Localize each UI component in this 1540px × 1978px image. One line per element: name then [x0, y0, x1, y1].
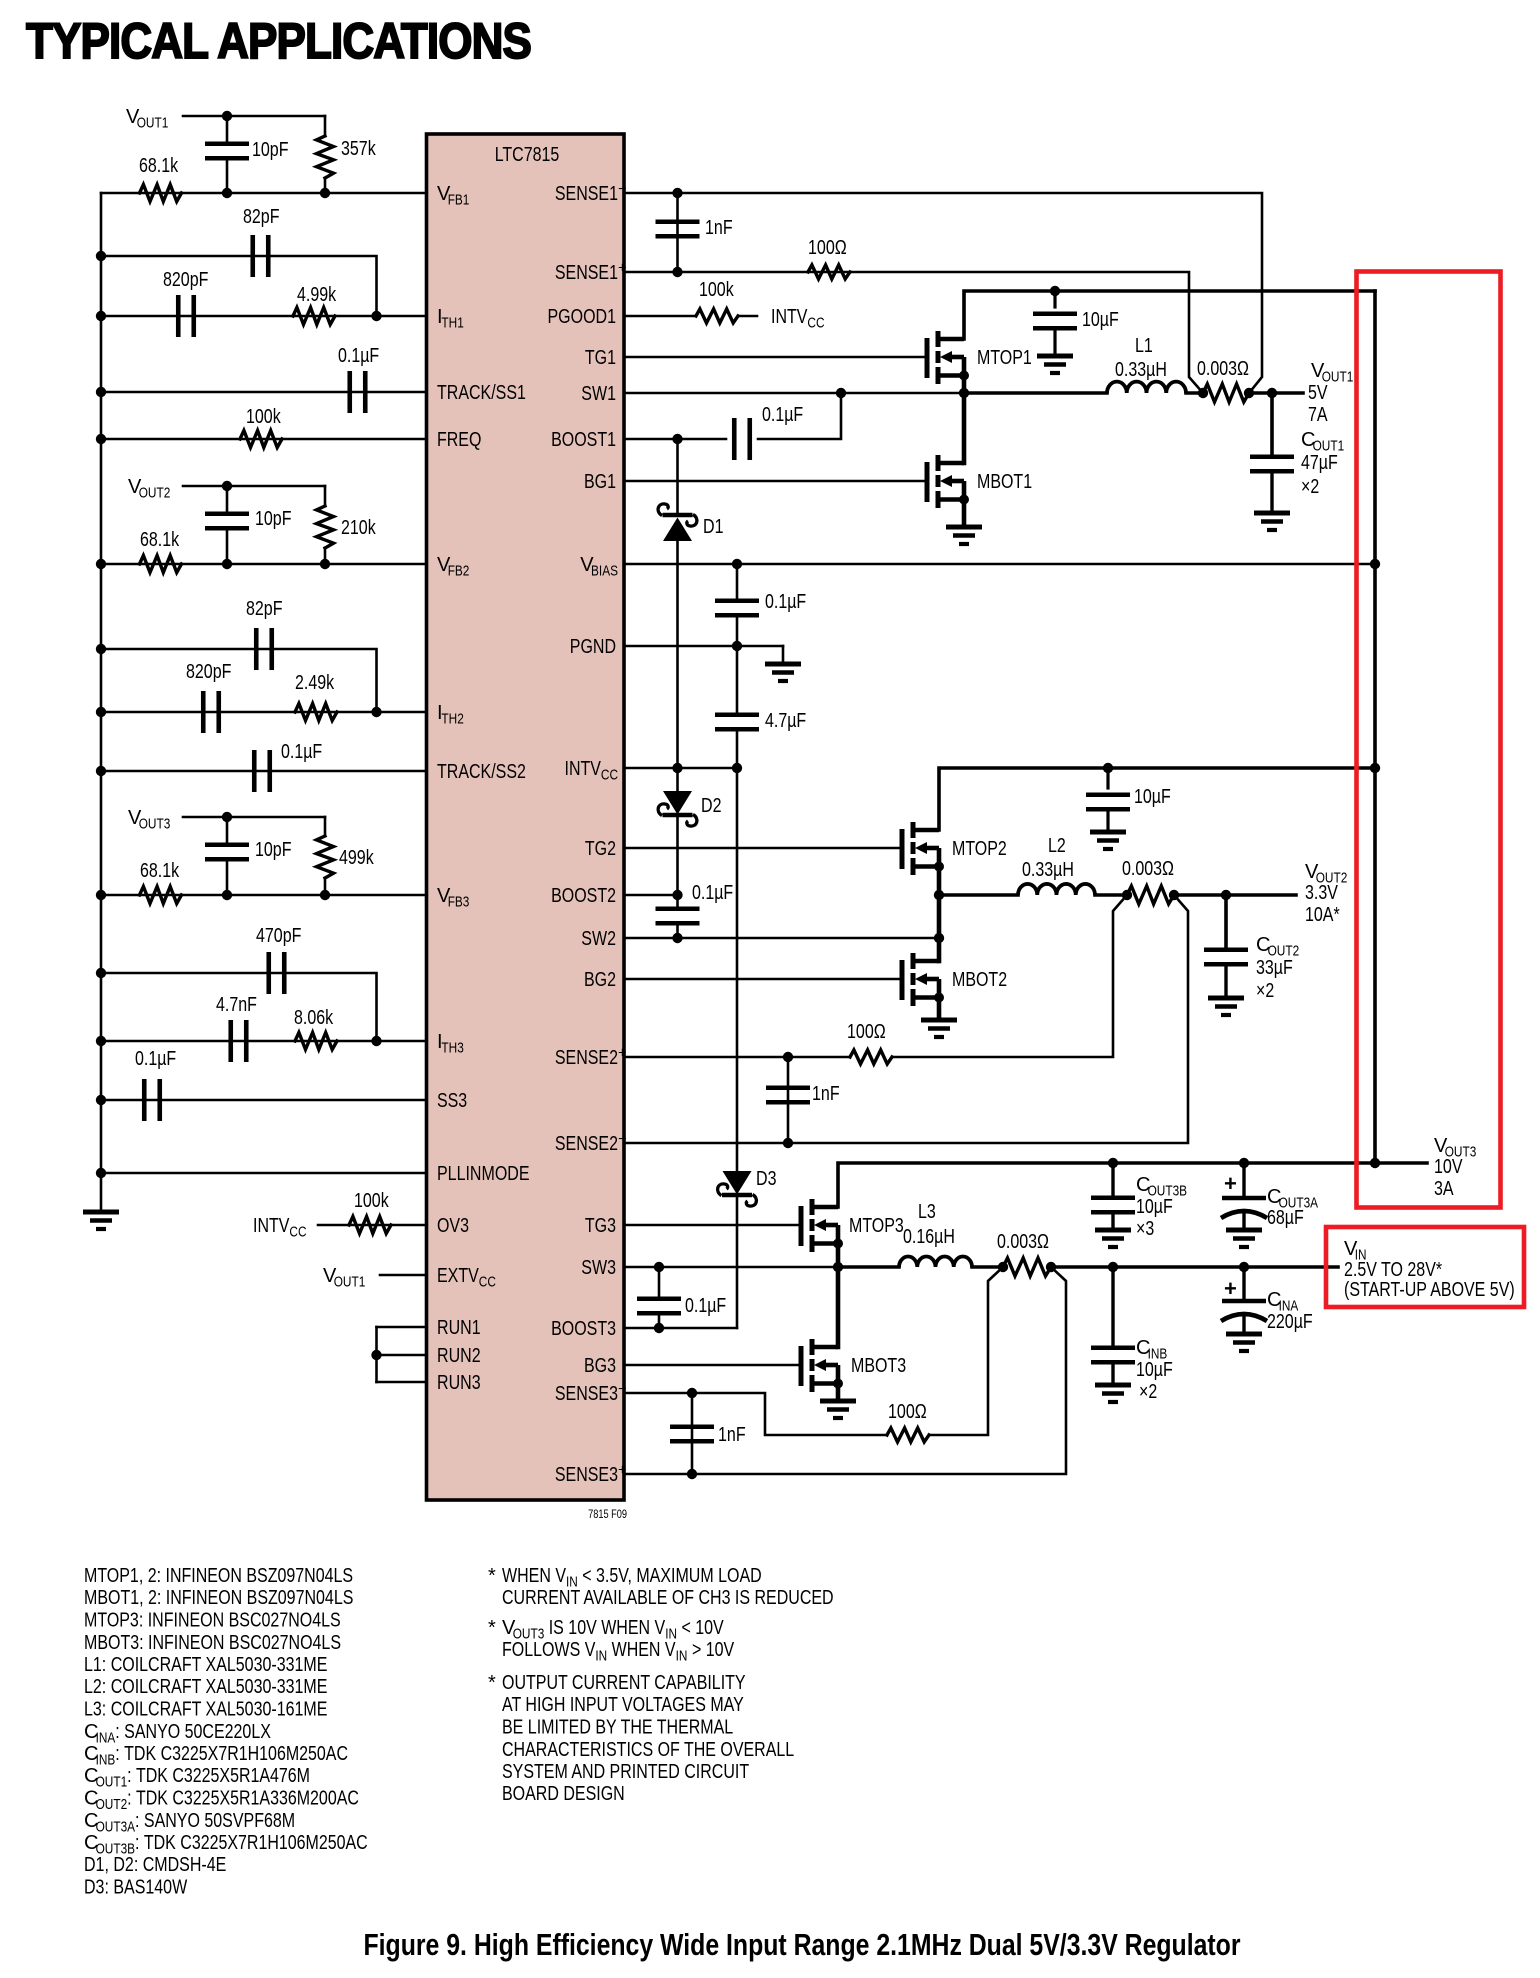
resistor 100k OV3	[349, 1217, 391, 1234]
svg-text:2.49k: 2.49k	[295, 672, 335, 694]
svg-text:820pF: 820pF	[163, 269, 208, 291]
svg-text:MBOT1: MBOT1	[977, 471, 1032, 493]
capacitor 4.7uF INTVCC	[736, 646, 739, 715]
svg-text:TG1: TG1	[585, 347, 616, 369]
svg-text:*: *	[488, 1565, 496, 1587]
svg-text:: TDK C3225X5R1A336M200AC: : TDK C3225X5R1A336M200AC	[127, 1788, 359, 1810]
svg-text:: TDK C3225X7R1H106M250AC: : TDK C3225X7R1H106M250AC	[115, 1743, 348, 1765]
capacitor 1nF ch3	[691, 1393, 694, 1474]
svg-text:Figure 9. High Efficiency Wide: Figure 9. High Efficiency Wide Input Ran…	[364, 1927, 1241, 1962]
wire FREQ row	[101, 438, 427, 441]
svg-text:L3: L3	[918, 1201, 936, 1223]
resistor 499k ch3	[324, 817, 327, 836]
wire VOUT2 output	[1174, 893, 1296, 897]
svg-text:1nF: 1nF	[705, 217, 733, 239]
svg-text:SS3: SS3	[437, 1090, 467, 1112]
svg-text:4.99k: 4.99k	[297, 284, 337, 306]
svg-text:FB3: FB3	[448, 895, 470, 911]
svg-text:SENSE2: SENSE2	[555, 1133, 618, 1155]
svg-text:1nF: 1nF	[718, 1424, 746, 1446]
svg-text:D3: BAS140W: D3: BAS140W	[84, 1877, 187, 1899]
capacitor 820pF ch2	[201, 691, 206, 733]
svg-text:100Ω: 100Ω	[847, 1021, 886, 1043]
diode D1 schottky	[676, 439, 679, 515]
resistor 68.1k ch1	[140, 185, 182, 202]
svg-text:OUTPUT CURRENT CAPABILITY: OUTPUT CURRENT CAPABILITY	[502, 1672, 746, 1694]
wire SENSE3- net	[624, 1393, 887, 1435]
svg-text:FB2: FB2	[448, 564, 470, 580]
svg-text:×3: ×3	[1136, 1218, 1154, 1240]
svg-text:INB: INB	[96, 1753, 116, 1769]
svg-text:BOARD DESIGN: BOARD DESIGN	[502, 1783, 625, 1805]
wire ITH2 row	[101, 711, 427, 714]
svg-text:357k: 357k	[341, 138, 376, 160]
wire MBOT2 drain to SW2	[937, 938, 942, 961]
resistor 4.99k ch1	[293, 308, 335, 325]
svg-text:10pF: 10pF	[252, 139, 289, 161]
svg-text:0.33µH: 0.33µH	[1115, 359, 1167, 381]
svg-text:0.16µH: 0.16µH	[903, 1226, 955, 1248]
capacitor 0.1uF BOOST1	[732, 418, 737, 460]
svg-text:MBOT2: MBOT2	[952, 969, 1007, 991]
svg-text:L1: COILCRAFT XAL5030-331ME: L1: COILCRAFT XAL5030-331ME	[84, 1654, 327, 1676]
svg-text:BIAS: BIAS	[591, 564, 618, 580]
svg-text:3A: 3A	[1434, 1178, 1454, 1200]
svg-text:CC: CC	[289, 1225, 306, 1241]
svg-text:10A*: 10A*	[1305, 904, 1340, 926]
svg-text:OUT3A: OUT3A	[96, 1819, 136, 1835]
svg-text:BOOST2: BOOST2	[551, 885, 616, 907]
transistor MBOT1 NMOS	[925, 462, 930, 502]
svg-text:7815 F09: 7815 F09	[588, 1509, 627, 1521]
IC U1 LTC7815 body	[427, 134, 625, 1500]
transistor MBOT2 NMOS	[900, 960, 905, 1000]
capacitor COUT3B 10uF x3	[1111, 1163, 1114, 1198]
svg-text:PLLINMODE: PLLINMODE	[437, 1163, 530, 1185]
capacitor 82pF ch1	[250, 235, 255, 277]
ground MBOT3	[820, 1399, 856, 1404]
resistor 68.1k ch3	[140, 887, 182, 904]
wire SENSE3+ net	[624, 1267, 1066, 1474]
transistor MTOP1 NMOS	[925, 338, 930, 378]
wire MBOT2 source to gnd	[937, 998, 942, 1021]
svg-text:PGND: PGND	[570, 636, 616, 658]
svg-text:INTV: INTV	[253, 1215, 290, 1237]
svg-text:5V: 5V	[1308, 382, 1328, 404]
inductor L3 0.16uH	[838, 1265, 899, 1269]
ground MBOT2	[921, 1018, 957, 1023]
wire BG2 net	[624, 978, 902, 981]
svg-text:: SANYO 50CE220LX: : SANYO 50CE220LX	[115, 1721, 271, 1743]
svg-text:BG2: BG2	[584, 969, 616, 991]
capacitor 1nF ch2	[787, 1057, 790, 1143]
wire SENSE1+ net	[624, 272, 1203, 393]
svg-text:BG3: BG3	[584, 1355, 616, 1377]
svg-text:0.1µF: 0.1µF	[765, 591, 806, 613]
svg-text:SENSE2: SENSE2	[555, 1047, 618, 1069]
resistor 100k PGOOD1	[696, 309, 738, 323]
wire ITH1 row	[101, 315, 427, 318]
svg-text:MTOP3: INFINEON BSC027NO4LS: MTOP3: INFINEON BSC027NO4LS	[84, 1610, 341, 1632]
svg-text:FOLLOWS V: FOLLOWS V	[502, 1639, 596, 1661]
svg-text:220µF: 220µF	[1267, 1311, 1313, 1333]
wire VOUT1 node ch1	[183, 115, 325, 118]
svg-text:BOOST3: BOOST3	[551, 1318, 616, 1340]
svg-text:0.1µF: 0.1µF	[692, 882, 733, 904]
wire TG1 net	[624, 356, 927, 359]
svg-text:82pF: 82pF	[246, 598, 283, 620]
svg-text:CC: CC	[479, 1275, 496, 1291]
wire PGOOD1 net	[624, 315, 696, 318]
wire BOOST2 net	[624, 894, 678, 897]
svg-text:10µF: 10µF	[1082, 309, 1119, 331]
wire VFB2 row	[101, 563, 427, 566]
svg-text:2.5V TO 28V*: 2.5V TO 28V*	[1344, 1259, 1442, 1281]
wire MBOT1 drain to SW1	[962, 393, 967, 463]
wire SW2 net	[624, 937, 939, 940]
svg-text:L2: COILCRAFT XAL5030-331ME: L2: COILCRAFT XAL5030-331ME	[84, 1676, 327, 1698]
capacitor 470pF ch3	[266, 952, 271, 994]
svg-text:BG1: BG1	[584, 471, 616, 493]
wire MBOT1 source to gnd	[962, 500, 967, 528]
resistor 2.49k ch2	[295, 704, 337, 721]
wire TRACK/SS2 row	[101, 770, 427, 773]
capacitor 82pF ch2	[254, 628, 259, 670]
resistor 0.003Ohm ch2 sense	[1127, 886, 1174, 904]
transistor MTOP3 NMOS	[799, 1206, 804, 1246]
wire MTOP3 source to SW3	[836, 1244, 841, 1268]
svg-text:IS 10V WHEN V: IS 10V WHEN V	[544, 1617, 665, 1639]
wire BOOST1 net	[624, 438, 726, 441]
svg-text:TG2: TG2	[585, 838, 616, 860]
svg-text:< 10V: < 10V	[677, 1617, 724, 1639]
svg-text:0.003Ω: 0.003Ω	[1122, 858, 1174, 880]
resistor 100Ohm SENSE1+	[808, 265, 850, 279]
capacitor COUT2 33uF x2	[1224, 895, 1228, 950]
capacitor 0.1uF BOOST2	[676, 895, 679, 909]
wire BG1 net	[624, 480, 927, 483]
svg-text:+: +	[618, 261, 627, 277]
capacitor 10pF ch2	[205, 511, 249, 516]
svg-text:+: +	[618, 1046, 627, 1062]
wire L3 to sense ch3	[972, 1265, 1003, 1269]
svg-text:INA: INA	[96, 1730, 116, 1746]
svg-text:10µF: 10µF	[1136, 1359, 1173, 1381]
capacitor COUT3A 68uF electrolytic	[1242, 1163, 1245, 1198]
svg-text:EXTV: EXTV	[437, 1265, 479, 1287]
resistor 8.06k ch3	[295, 1033, 337, 1050]
svg-text:SYSTEM AND PRINTED CIRCUIT: SYSTEM AND PRINTED CIRCUIT	[502, 1761, 749, 1783]
svg-text:MBOT3: MBOT3	[851, 1355, 906, 1377]
svg-text:820pF: 820pF	[186, 661, 231, 683]
svg-text:CC: CC	[807, 316, 824, 332]
svg-text:+: +	[1224, 1171, 1237, 1196]
wire MTOP1 drain feed ch1	[964, 291, 1375, 339]
svg-text:IN: IN	[595, 1649, 607, 1665]
svg-text:CURRENT AVAILABLE OF CH3 IS RE: CURRENT AVAILABLE OF CH3 IS REDUCED	[502, 1587, 834, 1609]
svg-text:×2: ×2	[1301, 476, 1319, 498]
capacitor 10uF ch2 feed	[1103, 763, 1113, 773]
ground symbol left rail	[83, 1210, 119, 1215]
svg-text:8.06k: 8.06k	[294, 1007, 334, 1029]
svg-text:OUT3: OUT3	[139, 817, 171, 833]
svg-text:D1, D2: CMDSH-4E: D1, D2: CMDSH-4E	[84, 1854, 226, 1876]
capacitor 10pF ch3	[205, 842, 249, 847]
wire EXTVCC row	[380, 1274, 427, 1277]
resistor 0.003Ohm ch3 sense	[1003, 1258, 1051, 1276]
resistor 100Ohm SENSE2+	[850, 1050, 892, 1064]
svg-text:100Ω: 100Ω	[888, 1401, 927, 1423]
wire TG2 net	[624, 847, 902, 850]
svg-text:SENSE1: SENSE1	[555, 183, 618, 205]
svg-text:MBOT1, 2: INFINEON BSZ097N04LS: MBOT1, 2: INFINEON BSZ097N04LS	[84, 1587, 353, 1609]
wire MTOP2 drain feed ch2	[939, 768, 1375, 830]
svg-text:INTV: INTV	[565, 758, 602, 780]
svg-text:100k: 100k	[246, 406, 281, 428]
capacitor 10uF ch1 feed	[1050, 286, 1060, 296]
svg-text:1nF: 1nF	[812, 1083, 840, 1105]
wire 82pF branch ch2	[101, 649, 377, 712]
svg-text:+: +	[618, 1463, 627, 1479]
diode D3 schottky	[736, 768, 739, 1172]
svg-text:OUT1: OUT1	[137, 116, 169, 132]
svg-text:LTC7815: LTC7815	[495, 144, 560, 166]
svg-text:MTOP1, 2: INFINEON BSZ097N04LS: MTOP1, 2: INFINEON BSZ097N04LS	[84, 1565, 353, 1587]
capacitor CINB 10uF x2	[1111, 1267, 1114, 1348]
svg-text:TH3: TH3	[441, 1041, 463, 1057]
svg-text:FB1: FB1	[448, 193, 470, 209]
resistor 68.1k ch2	[140, 556, 182, 573]
svg-text:−: −	[618, 182, 627, 198]
wire VOUT3 rail	[1373, 291, 1377, 1163]
svg-text:0.003Ω: 0.003Ω	[997, 1231, 1049, 1253]
highlight box VOUT3 rail (red)	[1357, 272, 1501, 1208]
svg-text:OV3: OV3	[437, 1215, 469, 1237]
capacitor 0.1uF TRACK/SS1	[347, 371, 352, 413]
wire SW3 net	[624, 1266, 838, 1269]
svg-text:SW1: SW1	[581, 383, 616, 405]
svg-text:OUT1: OUT1	[96, 1775, 128, 1791]
svg-text:−: −	[618, 1382, 627, 1398]
capacitor 0.1uF VBIAS	[736, 564, 739, 601]
wire VOUT2 node ch2	[183, 485, 325, 488]
resistor 0.003Ohm ch1 sense	[1203, 384, 1249, 402]
ground PGND	[782, 646, 785, 664]
svg-text:TG3: TG3	[585, 1215, 616, 1237]
svg-text:3.3V: 3.3V	[1305, 882, 1338, 904]
svg-text:×2: ×2	[1139, 1381, 1157, 1403]
capacitor CINA 220uF electrolytic	[1242, 1267, 1245, 1301]
capacitor 10pF ch1	[205, 141, 249, 146]
wire SS3 row	[101, 1099, 427, 1102]
svg-text:0.33µH: 0.33µH	[1022, 859, 1074, 881]
svg-text:: SANYO 50SVPF68M: : SANYO 50SVPF68M	[135, 1810, 295, 1832]
svg-text:10V: 10V	[1434, 1156, 1463, 1178]
ground rail left	[100, 193, 103, 1212]
wire SENSE2- net	[624, 895, 1188, 1143]
svg-text:SW2: SW2	[581, 928, 616, 950]
wire L2 to sense ch2	[1095, 893, 1127, 897]
svg-text:D2: D2	[701, 795, 722, 817]
svg-text:4.7nF: 4.7nF	[216, 994, 257, 1016]
svg-text:+: +	[1224, 1276, 1237, 1301]
wire VOUT3 output line	[838, 1163, 1427, 1207]
svg-text:0.1µF: 0.1µF	[338, 345, 379, 367]
wire VIN input line	[1051, 1265, 1338, 1269]
wire SW1 net	[624, 392, 964, 395]
svg-text:RUN1: RUN1	[437, 1317, 481, 1339]
svg-text:D3: D3	[756, 1168, 777, 1190]
wire MBOT3 drain to SW3	[836, 1267, 841, 1347]
capacitor COUT1 47uF x2	[1270, 393, 1274, 457]
svg-text:L3: COILCRAFT XAL5030-161ME: L3: COILCRAFT XAL5030-161ME	[84, 1699, 327, 1721]
transistor MTOP2 NMOS	[900, 829, 905, 869]
svg-text:68.1k: 68.1k	[139, 155, 179, 177]
svg-text:10pF: 10pF	[255, 839, 292, 861]
wire TRACK/SS1 row	[101, 391, 427, 394]
svg-text:68.1k: 68.1k	[140, 529, 180, 551]
svg-text:0.1µF: 0.1µF	[685, 1295, 726, 1317]
svg-text:33µF: 33µF	[1256, 957, 1293, 979]
svg-text:FREQ: FREQ	[437, 429, 481, 451]
svg-text:(START-UP ABOVE 5V): (START-UP ABOVE 5V)	[1344, 1279, 1515, 1301]
diode D2 schottky	[676, 768, 679, 792]
svg-text:WHEN V: WHEN V	[607, 1639, 676, 1661]
svg-text:: TDK C3225X7R1H106M250AC: : TDK C3225X7R1H106M250AC	[135, 1832, 368, 1854]
wire SENSE1- net	[624, 193, 1262, 393]
wire VOUT3 node ch3	[183, 816, 325, 819]
wire OV3 row	[318, 1224, 427, 1227]
svg-text:×2: ×2	[1256, 980, 1274, 1002]
capacitor 0.1uF SS3	[142, 1079, 147, 1121]
svg-text:L2: L2	[1048, 835, 1066, 857]
svg-text:499k: 499k	[339, 847, 374, 869]
svg-text:PGOOD1: PGOOD1	[548, 306, 617, 328]
wire INTVCC net	[624, 767, 737, 770]
svg-text:10µF: 10µF	[1136, 1196, 1173, 1218]
svg-text:SENSE3: SENSE3	[555, 1383, 618, 1405]
svg-text:RUN2: RUN2	[437, 1345, 481, 1367]
capacitor 4.7nF ch3	[228, 1020, 233, 1062]
svg-text:SENSE1: SENSE1	[555, 262, 618, 284]
highlight box VIN (red)	[1326, 1227, 1524, 1307]
wire ITH3 row	[101, 1040, 427, 1043]
svg-text:SENSE3: SENSE3	[555, 1464, 618, 1486]
wire L1 to sense resistor	[1186, 391, 1203, 395]
svg-text:100k: 100k	[354, 1190, 389, 1212]
svg-text:SW3: SW3	[581, 1257, 616, 1279]
svg-text:OUT1: OUT1	[334, 1275, 366, 1291]
svg-text:INTV: INTV	[771, 306, 808, 328]
wire RUN1-RUN2-RUN3 tie	[377, 1326, 427, 1329]
svg-text:0.1µF: 0.1µF	[762, 404, 803, 426]
resistor 210k ch2	[324, 486, 327, 506]
svg-text:TYPICAL APPLICATIONS: TYPICAL APPLICATIONS	[26, 13, 531, 69]
svg-text:68µF: 68µF	[1267, 1207, 1304, 1229]
wire PGND net	[624, 645, 783, 648]
wire 82pF branch ch1	[101, 256, 377, 316]
svg-text:AT HIGH INPUT VOLTAGES MAY: AT HIGH INPUT VOLTAGES MAY	[502, 1694, 744, 1716]
svg-text:10µF: 10µF	[1134, 786, 1171, 808]
ground MBOT1	[946, 525, 982, 530]
transistor MBOT3 NMOS	[799, 1346, 804, 1386]
svg-text:TH2: TH2	[441, 712, 463, 728]
svg-text:TRACK/SS1: TRACK/SS1	[437, 382, 526, 404]
svg-text:7A: 7A	[1308, 404, 1328, 426]
svg-text:MTOP3: MTOP3	[849, 1215, 904, 1237]
capacitor 0.1uF TRACK/SS2	[252, 750, 257, 792]
svg-text:68.1k: 68.1k	[140, 860, 180, 882]
svg-text:10pF: 10pF	[255, 508, 292, 530]
wire BOOST3 net	[624, 1327, 737, 1330]
wire PLLINMODE row	[101, 1172, 427, 1175]
svg-text:210k: 210k	[341, 517, 376, 539]
svg-text:0.003Ω: 0.003Ω	[1197, 358, 1249, 380]
junction dots on left ground rail	[96, 251, 106, 261]
svg-text:82pF: 82pF	[243, 206, 280, 228]
svg-text:470pF: 470pF	[256, 925, 301, 947]
resistor 100k FREQ	[240, 431, 282, 448]
capacitor 0.1uF BOOST3	[658, 1267, 661, 1299]
wire VFB1 row	[101, 192, 427, 195]
svg-text:0.1µF: 0.1µF	[135, 1048, 176, 1070]
wire VBIAS net	[624, 563, 1375, 566]
svg-text:< 3.5V, MAXIMUM LOAD: < 3.5V, MAXIMUM LOAD	[578, 1565, 762, 1587]
svg-text:*: *	[488, 1617, 496, 1639]
svg-text:−: −	[618, 1132, 627, 1148]
svg-text:BE LIMITED BY THE THERMAL: BE LIMITED BY THE THERMAL	[502, 1717, 733, 1739]
svg-text:100k: 100k	[699, 279, 734, 301]
svg-text:4.7µF: 4.7µF	[765, 710, 806, 732]
wire VOUT1 output	[1249, 391, 1303, 395]
svg-text:OUT2: OUT2	[139, 486, 171, 502]
svg-text:: TDK C3225X5R1A476M: : TDK C3225X5R1A476M	[127, 1765, 310, 1787]
svg-text:IN: IN	[676, 1649, 688, 1665]
svg-text:BOOST1: BOOST1	[551, 429, 616, 451]
svg-text:D1: D1	[703, 516, 724, 538]
wire TG3 net	[624, 1224, 801, 1227]
wire 470pF branch ch3	[101, 973, 377, 1041]
svg-text:L1: L1	[1135, 335, 1153, 357]
wire MTOP2 source to L2	[937, 867, 942, 896]
wire BG3 net	[624, 1364, 801, 1367]
svg-text:*: *	[488, 1672, 496, 1694]
capacitor 820pF ch1	[176, 295, 181, 337]
svg-text:47µF: 47µF	[1301, 452, 1338, 474]
svg-text:TH1: TH1	[441, 316, 463, 332]
svg-text:0.1µF: 0.1µF	[281, 741, 322, 763]
svg-text:WHEN V: WHEN V	[502, 1565, 567, 1587]
resistor 357k ch1	[324, 116, 327, 136]
capacitor 1nF ch1	[676, 193, 679, 272]
svg-text:MTOP2: MTOP2	[952, 838, 1007, 860]
svg-text:> 10V: > 10V	[688, 1639, 735, 1661]
svg-text:OUT2: OUT2	[96, 1797, 128, 1813]
svg-text:MTOP1: MTOP1	[977, 347, 1032, 369]
svg-text:RUN3: RUN3	[437, 1372, 481, 1394]
svg-text:MBOT3: INFINEON BSC027NO4LS: MBOT3: INFINEON BSC027NO4LS	[84, 1632, 341, 1654]
svg-text:CHARACTERISTICS OF THE OVERALL: CHARACTERISTICS OF THE OVERALL	[502, 1739, 794, 1761]
resistor 100Ohm SENSE3-	[887, 1428, 929, 1442]
svg-text:TRACK/SS2: TRACK/SS2	[437, 761, 526, 783]
inductor L1 0.33uH	[1107, 382, 1186, 393]
wire VFB3 row	[101, 894, 427, 897]
inductor L2 0.33uH	[939, 893, 1018, 897]
wire MBOT3 source to gnd	[836, 1384, 841, 1402]
svg-text:100Ω: 100Ω	[808, 237, 847, 259]
wire SENSE2+ net	[624, 1056, 850, 1059]
svg-text:CC: CC	[601, 768, 618, 784]
